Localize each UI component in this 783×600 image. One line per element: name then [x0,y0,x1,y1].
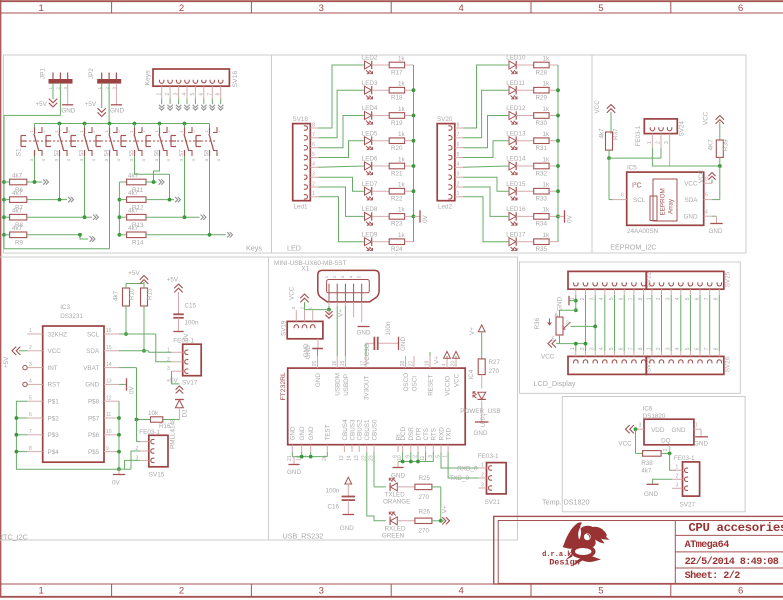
svg-text:2: 2 [167,357,170,363]
svg-text:4: 4 [458,586,463,597]
LED LED15 [506,181,526,200]
svg-text:25: 25 [312,361,318,367]
wire R37 junction to SV24 pin2 [609,148,661,158]
ground GND at IC6 [694,429,708,448]
svg-text:C15: C15 [185,302,197,309]
svg-text:RESET: RESET [427,375,434,396]
svg-text:2: 2 [191,130,196,133]
svg-text:GND: GND [299,426,306,440]
svg-text:5: 5 [312,152,315,158]
connector SV24 FE03-1 [635,119,685,166]
svg-text:3: 3 [204,159,209,162]
svg-text:7: 7 [29,429,32,435]
svg-text:1: 1 [104,130,109,133]
svg-text:7: 7 [704,347,710,350]
svg-text:RXD: RXD [438,427,445,441]
LED LED6 [362,156,378,175]
wire modem signal bus to ground [398,452,433,467]
resistor R38 4k7 [636,429,670,474]
svg-text:4: 4 [116,159,121,162]
+5V supply at JP2 pin1 [85,83,106,116]
svg-text:SV17: SV17 [182,379,198,386]
svg-text:OSCO: OSCO [403,373,410,392]
svg-text:13: 13 [354,455,360,461]
svg-text:5: 5 [685,347,691,350]
svg-text:GREEN: GREEN [382,533,405,540]
svg-text:3: 3 [167,366,170,372]
svg-text:R16: R16 [159,423,171,430]
LED LED7 [362,181,378,200]
wire LCD bus [586,295,720,351]
resistor R30 1k [516,106,558,127]
wire P$5-P$8 right rail [117,401,121,471]
wire SV18 pin5 to LED row 4 [319,141,364,158]
svg-text:R22: R22 [391,196,403,203]
svg-text:6: 6 [29,412,32,418]
IC U IC6 DS1820 [636,406,702,452]
resistor R22 1k [372,182,414,203]
svg-text:2: 2 [663,448,669,451]
wire left rail [2,115,6,248]
svg-text:2: 2 [179,3,184,14]
svg-text:1k: 1k [398,55,406,62]
wire SV20 pin1 to LED row 8 [463,197,508,242]
resistor R35 1k [516,232,558,253]
svg-text:1: 1 [167,347,170,353]
svg-text:3: 3 [79,159,84,162]
svg-text:1k: 1k [543,232,551,239]
svg-text:R39: R39 [723,139,730,151]
LED POWER_USB [460,392,500,427]
svg-text:JP2: JP2 [88,68,95,79]
title block border [494,516,783,584]
svg-text:IC3: IC3 [60,304,70,311]
svg-text:S6: S6 [154,150,160,157]
svg-text:SDA: SDA [86,348,100,355]
wire S6 to right row1 and net arrow [146,156,164,185]
svg-text:RXLED: RXLED [385,525,406,532]
svg-text:1: 1 [312,191,315,197]
svg-text:6: 6 [738,3,743,14]
svg-text:V+: V+ [434,356,441,364]
section frame LCD_Display [520,262,741,393]
svg-text:+5V: +5V [3,356,10,368]
svg-text:EEPROM_I2C: EEPROM_I2C [610,243,656,252]
svg-text:+5V: +5V [166,377,178,384]
resistor R37 4k7 [599,128,620,158]
svg-text:OSCI: OSCI [411,376,418,392]
svg-text:6: 6 [619,297,625,300]
svg-text:P$8: P$8 [88,399,100,406]
svg-text:4k7: 4k7 [641,467,652,474]
svg-text:1: 1 [97,87,102,90]
svg-text:0V: 0V [567,214,574,223]
svg-text:SV20: SV20 [437,116,453,123]
svg-text:CPU accesories: CPU accesories [688,521,783,535]
svg-text:SV25: SV25 [725,271,732,287]
svg-text:RTC_I2C: RTC_I2C [0,533,28,542]
svg-text:2: 2 [66,130,71,133]
svg-text:6: 6 [312,142,315,148]
svg-text:S8: S8 [204,150,210,157]
svg-text:20: 20 [451,361,457,367]
svg-text:3: 3 [104,159,109,162]
svg-text:4: 4 [705,209,708,215]
LED LED8 [362,206,378,225]
svg-text:GND: GND [290,426,297,440]
svg-text:LED11: LED11 [506,80,525,87]
svg-text:1k: 1k [543,207,551,214]
svg-text:4: 4 [182,93,188,96]
svg-text:4: 4 [458,3,463,14]
resistor R28 1k [516,55,558,76]
resistor R18 1k [372,81,414,102]
svg-text:LED3: LED3 [362,80,378,87]
svg-text:V+: V+ [469,327,476,335]
svg-text:+5V: +5V [128,270,140,277]
svg-text:P$1: P$1 [48,399,60,406]
power V+ at USB pin1 [325,309,344,318]
connector SV16 [145,69,239,99]
svg-text:GND: GND [694,441,708,448]
svg-text:R35: R35 [536,246,548,253]
svg-text:FE03-1: FE03-1 [674,455,695,462]
resistor R10 4k7 pullup [113,288,136,336]
LED LED9 [362,231,378,250]
resistor R11 4k7 [119,172,146,194]
svg-text:RTS: RTS [431,428,438,440]
svg-text:7: 7 [207,93,213,96]
wire SV18 pin7 to LED row 2 [319,90,364,138]
svg-text:LED16: LED16 [506,206,526,213]
svg-text:R23: R23 [391,221,403,228]
svg-text:P$4: P$4 [48,449,60,456]
connector SV26 [646,347,731,374]
svg-text:3: 3 [179,159,184,162]
section frame EEPROM_I2C [592,55,746,253]
svg-text:R38: R38 [641,460,653,467]
svg-text:1: 1 [39,3,44,14]
wire SV18 pin2 to LED row 7 [319,187,364,216]
svg-text:2: 2 [216,130,221,133]
svg-text:1: 1 [647,141,653,144]
svg-text:R27: R27 [489,359,501,366]
svg-text:LED8: LED8 [362,206,378,213]
svg-text:R18: R18 [391,95,403,102]
svg-text:R31: R31 [536,145,548,152]
wire SV20 pin7 to LED row 2 [463,90,508,138]
ground GND at IC5 [709,216,723,235]
svg-text:3: 3 [666,347,672,350]
svg-text:4k7: 4k7 [128,208,139,215]
connector SV20 [437,116,463,211]
svg-text:16: 16 [106,328,112,334]
svg-text:VCC: VCC [48,348,62,355]
svg-text:1: 1 [308,307,314,310]
svg-text:5: 5 [357,275,362,278]
wire S8 to right row4 and net arrow [146,156,233,238]
connector SV19 [280,307,323,339]
LED LED13 [506,130,526,149]
resistor R29 1k [516,81,558,102]
connector SV22 [568,271,653,300]
svg-text:7: 7 [628,297,634,300]
svg-text:DTR: DTR [415,427,422,440]
svg-text:4: 4 [457,162,460,168]
svg-text:1: 1 [29,328,32,334]
wire SV18 pin8 to LED row 1 [319,65,364,128]
svg-text:2: 2 [179,586,184,597]
svg-text:4k7: 4k7 [128,172,139,179]
switch S1 [16,124,46,162]
svg-text:1: 1 [136,437,139,443]
resistor R13 4k7 [119,208,146,230]
wire SV18 pin4 to LED row 5 [319,166,364,167]
svg-text:S2: S2 [54,150,60,157]
section frame RTC_I2C [0,257,269,540]
svg-text:2: 2 [104,87,109,90]
wire SV18 pin1 to LED row 8 [319,197,364,242]
switch S6 [146,124,171,162]
wire CBUS0 to TXLED [374,452,386,487]
ground GND at FT232 pin25 [305,345,323,359]
section frame Temp DS1820 [562,397,745,512]
wire USB pin1 to VCC node [305,306,331,312]
logo dragon d.r.a.k Design [542,522,609,567]
svg-text:R19: R19 [391,120,403,127]
svg-text:GND: GND [357,330,371,337]
power V+ at VCC pin20 [453,351,460,358]
LED LED16 [506,206,526,225]
svg-text:4: 4 [41,159,46,162]
svg-text:VCC: VCC [684,181,698,188]
svg-text:TXD_0: TXD_0 [449,475,469,482]
svg-text:14: 14 [347,455,353,461]
svg-text:LED6: LED6 [362,156,378,163]
wire S1 to row1 and net arrow [27,156,49,185]
svg-text:1k: 1k [543,106,551,113]
svg-text:FE03-1: FE03-1 [478,453,499,460]
svg-text:LED4: LED4 [362,105,378,112]
svg-text:R36: R36 [534,317,541,329]
svg-text:3: 3 [481,482,484,488]
svg-text:INT: INT [48,365,58,372]
svg-text:3: 3 [319,3,324,14]
svg-text:DSR: DSR [408,427,415,441]
svg-text:GND: GND [709,228,723,235]
svg-text:RST: RST [48,382,61,389]
ground 0V SV20 bank [558,210,574,223]
svg-text:2: 2 [312,181,315,187]
svg-text:C16: C16 [328,504,340,511]
power +5V above C15 [167,276,183,292]
svg-text:GND: GND [305,345,312,359]
svg-text:2: 2 [41,130,46,133]
svg-text:17: 17 [361,361,367,367]
switch S2 [46,124,71,162]
svg-text:8: 8 [312,122,315,128]
wire CBUS1 to RXLED [367,452,386,521]
LED RXLED GREEN [382,512,406,540]
svg-text:VCC: VCC [618,441,632,448]
svg-text:3: 3 [457,172,460,178]
svg-text:5: 5 [685,297,691,300]
svg-text:LED10: LED10 [506,55,526,62]
wire SV18 pin3 to LED row 6 [319,177,364,191]
wire SCL to SV17 pin2 [119,334,172,362]
resistor R7 4k7 [4,190,27,212]
resistor R23 1k [372,207,414,228]
ground GND at JP1 pin3 [61,83,75,115]
svg-text:GND: GND [287,469,301,476]
svg-text:3: 3 [129,159,134,162]
section frame Keys [4,55,272,253]
svg-text:IC5: IC5 [627,165,637,172]
frame outer border [0,0,783,2]
svg-text:16: 16 [332,361,338,367]
svg-text:LED7: LED7 [362,181,378,188]
resistor R16 10k [137,410,180,430]
svg-text:Array: Array [668,198,675,214]
svg-text:4k7: 4k7 [113,290,120,301]
LED LED2 [362,55,378,74]
resistor R24 1k [372,232,414,253]
wire SV18 pin6 to LED row 3 [319,116,364,148]
svg-text:R28: R28 [536,69,548,76]
svg-text:V+: V+ [338,309,345,317]
svg-text:SV21: SV21 [485,499,501,506]
wire JP2 pin2 to bus [108,83,110,123]
wire FT232 ground bus [292,452,327,459]
svg-text:4k7: 4k7 [128,225,139,232]
svg-text:3: 3 [590,297,596,300]
svg-text:Temp. DS1820: Temp. DS1820 [542,498,590,507]
wire SV20 pin5 to LED row 4 [463,141,508,158]
power VCC at R39 [703,111,725,140]
svg-text:LED5: LED5 [362,130,378,137]
svg-text:CBUS4: CBUS4 [342,419,349,440]
ground GND at SV27 pin2 [644,479,672,498]
svg-text:2: 2 [656,141,662,144]
svg-text:3: 3 [291,307,297,310]
ground GND at FT232 bottom left [287,457,301,476]
svg-text:2: 2 [56,87,61,90]
wire SV15 pin2 to ground [119,451,140,469]
svg-text:0V: 0V [422,214,429,223]
svg-text:D2: D2 [182,409,189,418]
svg-text:3V3OUT: 3V3OUT [363,375,370,400]
svg-text:7: 7 [457,132,460,138]
switch S8 [196,124,221,162]
svg-text:3: 3 [29,362,32,368]
svg-text:4K7: 4K7 [708,139,715,151]
svg-text:7: 7 [312,132,315,138]
svg-text:1: 1 [481,462,484,468]
svg-text:4: 4 [166,159,171,162]
resistor R26 270 [397,509,441,535]
svg-text:15: 15 [340,361,346,367]
svg-text:100n: 100n [185,320,200,327]
svg-text:Design: Design [549,558,580,568]
svg-text:GND: GND [340,525,354,532]
resistor R8 4k7 [4,208,27,230]
svg-text:1k: 1k [398,182,406,189]
wire SV15 pin3 to ground [125,460,141,469]
svg-text:I2C: I2C [632,181,642,190]
svg-text:LED9: LED9 [362,231,378,238]
LED LED4 [362,105,378,124]
switch S4 [96,124,121,162]
power V+ at R25 R26 [439,487,450,525]
capacitor C16 100n [326,477,356,532]
svg-text:4: 4 [348,275,353,278]
svg-text:Led2: Led2 [438,203,453,210]
svg-text:27: 27 [409,361,415,367]
svg-text:FT232RL: FT232RL [280,372,287,401]
connector SV23 [568,347,653,374]
external signal arrows at SV16 [159,99,223,111]
wire LCD pin1 column [574,295,578,351]
svg-text:LED17: LED17 [506,231,526,238]
svg-text:DS3231: DS3231 [60,313,83,320]
svg-text:2: 2 [299,307,305,310]
svg-text:P$7: P$7 [88,415,100,422]
svg-text:1k: 1k [398,81,406,88]
svg-text:DS1820: DS1820 [643,413,666,420]
wire R9 row4 net arrow [27,233,95,242]
frame bottom band [0,583,783,585]
svg-text:LED14: LED14 [506,156,526,163]
resistor R21 1k [372,156,414,177]
svg-text:SV16: SV16 [232,71,239,88]
svg-text:USBDP: USBDP [343,374,350,396]
LED LED17 [506,231,526,250]
resistor R9 4k7 [4,225,27,247]
svg-text:3: 3 [676,483,679,489]
ground 0V below C15 [173,332,190,342]
wire VBAT [119,368,140,442]
svg-text:R15: R15 [147,288,154,300]
svg-text:2: 2 [116,130,121,133]
svg-text:0V: 0V [112,480,121,487]
svg-text:2: 2 [141,130,146,133]
frame top band [0,12,783,14]
svg-text:4: 4 [442,363,448,366]
wire SDA junction to SDA pin [712,166,720,200]
resistor R17 1k [372,55,414,76]
svg-text:1: 1 [646,297,652,300]
resistor R6 4k7 [4,172,27,194]
svg-text:1: 1 [79,130,84,133]
svg-text:TXD: TXD [446,427,453,440]
svg-text:GND: GND [315,373,322,387]
LED TXLED ORANGE [383,478,410,506]
svg-text:8: 8 [705,176,708,182]
svg-text:USBDM: USBDM [335,373,342,396]
wire SV20 pin2 to LED row 7 [463,187,508,216]
power V+ at R27 [469,325,485,359]
svg-text:VCC: VCC [453,373,460,387]
svg-text:FE03-1: FE03-1 [173,337,194,344]
switch S5 [121,124,146,162]
svg-text:3: 3 [590,347,596,350]
resistor R14 4k7 [119,225,146,247]
svg-text:+5V: +5V [85,101,97,108]
wire SV20 pin3 to LED row 6 [463,177,508,191]
svg-text:R24: R24 [391,246,403,253]
wire P$1-P$4 left rail [15,401,120,469]
svg-text:VCC: VCC [703,111,710,125]
